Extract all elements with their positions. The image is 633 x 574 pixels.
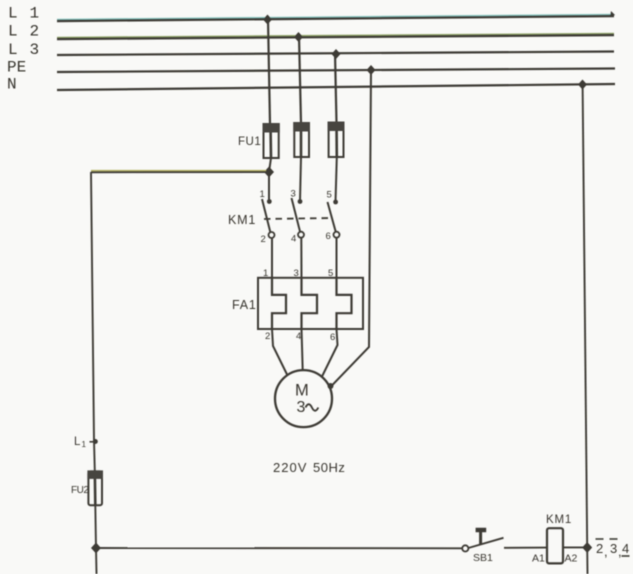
pin 6 label (326, 231, 331, 242)
svg-text:3: 3 (610, 541, 617, 556)
wire contact3 to FA1 (336, 238, 338, 280)
node bottom left junction (91, 543, 101, 554)
heater element FA1 pole 2 (302, 279, 318, 329)
heater element FA1 pole 1 (272, 279, 286, 329)
node junction on L2 (294, 32, 303, 42)
pin 4 label below FA1 (296, 331, 301, 342)
fuse FU1 pole 2 (293, 122, 310, 157)
svg-text:1: 1 (82, 440, 87, 449)
wire control left vertical (91, 172, 95, 471)
pin 2 label (261, 234, 266, 245)
svg-text:,: , (604, 544, 608, 559)
svg-text:50Hz: 50Hz (313, 460, 345, 475)
svg-text:N: N (7, 76, 17, 94)
pin 4 label (291, 234, 296, 245)
wire coil to N junction (563, 546, 587, 548)
svg-text:2: 2 (596, 541, 603, 556)
coil KM1 (547, 528, 563, 563)
wire FU2 to bottom junction (94, 505, 97, 548)
node junction on L3 (332, 49, 341, 59)
svg-text:6: 6 (326, 231, 331, 242)
svg-text:KM1: KM1 (228, 213, 256, 227)
label FU1 (238, 136, 261, 148)
pushbutton SB1 (462, 530, 503, 552)
label L3 (8, 41, 39, 59)
pin A1 label (532, 553, 545, 565)
svg-text:3: 3 (291, 189, 296, 200)
svg-text:L: L (74, 436, 81, 448)
label L2 (8, 23, 39, 41)
svg-text:2: 2 (265, 331, 270, 342)
label FA1 (232, 298, 257, 312)
wire fuse1 to contact1 (269, 158, 271, 201)
wire below right junction to edge (586, 547, 588, 574)
wire bottom control run to SB1 (96, 547, 462, 549)
node junction on PE (367, 65, 376, 75)
wire N drop right side (583, 85, 588, 547)
fuse FU1 pole 1 (263, 123, 280, 158)
motor M1 circle (275, 370, 332, 427)
wire below left junction to edge (95, 548, 98, 574)
node bottom right junction (582, 542, 592, 553)
svg-text:1: 1 (260, 189, 265, 200)
label PE (7, 59, 26, 77)
motor label 3~ (297, 399, 319, 416)
pin 5 label above FA1 (328, 268, 333, 279)
pin 6 label below FA1 (330, 332, 335, 343)
fuse FU1 pole 3 (328, 122, 345, 158)
wire mechanical linkage dashed (264, 218, 333, 219)
wire PE drop to motor (328, 70, 372, 389)
wire SB1 to coil (504, 547, 547, 549)
label FU2 (71, 485, 89, 496)
svg-text:FU1: FU1 (238, 136, 261, 148)
wire phase A drop L1 to fuse (268, 19, 270, 124)
label N (7, 76, 17, 94)
wire FA1 pole1 to motor (272, 329, 287, 375)
wire fuse3 to contact3 (336, 157, 337, 202)
svg-text:PE: PE (7, 59, 26, 77)
svg-text:4: 4 (291, 234, 296, 245)
pin 2 label below FA1 (265, 331, 270, 342)
wire phase B drop L2 to fuse (299, 36, 301, 123)
label contact cross-reference 2,3,4 (596, 539, 630, 559)
svg-text:4: 4 (296, 331, 301, 342)
svg-text:KM1: KM1 (546, 514, 572, 526)
wire control branch horizontal (91, 171, 266, 173)
contact KM1 pole 1 (262, 199, 275, 238)
node junction on L1 (263, 15, 272, 25)
svg-text:6: 6 (330, 332, 335, 343)
wire FA1 pole3 to motor (322, 329, 338, 377)
label KM1 (coil) (546, 514, 572, 526)
svg-text:FU2: FU2 (71, 485, 89, 496)
svg-text:4: 4 (622, 541, 629, 556)
pin 1 label above FA1 (263, 268, 268, 279)
svg-text:5: 5 (327, 190, 332, 201)
thermal relay FA1 box (258, 278, 363, 329)
wire bus N (57, 84, 615, 90)
pin 3 label (291, 189, 296, 200)
node junction on N (578, 80, 587, 90)
svg-text:FA1: FA1 (232, 298, 257, 312)
pin 3 label above FA1 (294, 268, 299, 279)
wire bus PE (57, 69, 615, 73)
pin A2 label (565, 553, 578, 565)
wire FA1 pole2 to motor (302, 329, 303, 370)
svg-text:M: M (295, 382, 309, 400)
wire contact2 to FA1 (300, 238, 302, 280)
pin 1 label (260, 189, 265, 200)
label KM1 (contacts) (228, 213, 256, 227)
contact KM1 pole 2 (292, 198, 305, 238)
wire bus L1 (57, 11, 615, 21)
svg-text:A1: A1 (532, 553, 545, 565)
node L1 tap tick (90, 439, 98, 444)
label L1 (8, 5, 39, 23)
pin 5 label (327, 190, 332, 201)
svg-text:A2: A2 (565, 553, 578, 565)
node branch junction below FU1 (264, 167, 274, 178)
label 220V 50Hz (273, 460, 345, 475)
wire bus L2 (57, 34, 614, 40)
fuse FU2 (87, 470, 103, 505)
heater element FA1 pole 3 (337, 279, 352, 329)
svg-text:SB1: SB1 (473, 552, 493, 564)
motor letter M (295, 382, 309, 400)
contact KM1 pole 3 (328, 200, 340, 238)
wire bus L3 (57, 52, 614, 56)
label SB1 (473, 552, 493, 564)
wire contact1 to FA1 (271, 238, 273, 280)
wire phase C drop L3 to fuse (335, 53, 337, 123)
svg-text:220V: 220V (273, 460, 307, 475)
svg-text:2: 2 (261, 234, 266, 245)
label L1 tap (74, 436, 87, 449)
wire fuse2 to contact2 (300, 157, 301, 201)
svg-text:3: 3 (297, 399, 306, 416)
